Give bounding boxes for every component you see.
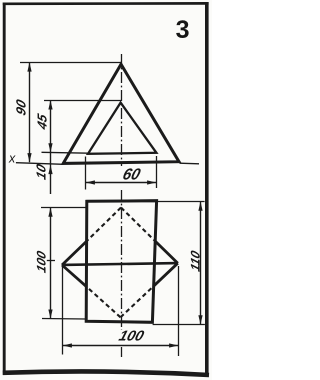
- horizontal solid edge through diamond corners: [62, 263, 178, 265]
- diamond edge top-left dashed part: [87, 208, 121, 242]
- arrow right 60: [147, 180, 156, 184]
- border frame top: [3, 2, 209, 5]
- svg-text:45: 45: [35, 112, 50, 133]
- border frame left: [3, 3, 6, 376]
- dimension line 60: [86, 182, 157, 184]
- dimension line 90: [29, 63, 31, 163]
- inner triangle (front view of inner pyramid): [88, 103, 156, 154]
- diamond edge bottom-right dashed part: [121, 286, 154, 317]
- svg-text:100: 100: [34, 249, 49, 274]
- svg-text:10: 10: [34, 162, 49, 182]
- top view rectangle (prism): [86, 201, 156, 323]
- vertical centerline (axis of symmetry, both views): [121, 54, 123, 166]
- diamond edge top-right solid part: [155, 241, 178, 263]
- extension line 110 top: [157, 201, 205, 203]
- arrow up 100-left top: [48, 208, 52, 217]
- outer triangle (front view of pyramid): [63, 64, 179, 163]
- svg-text:x: x: [8, 152, 16, 166]
- svg-text:3: 3: [176, 16, 190, 44]
- diamond edge top-right dashed part: [121, 208, 155, 241]
- vertical centerline tail below bottom dimension: [121, 347, 123, 357]
- extension line 100-left top: [41, 207, 87, 209]
- arrow down 90 bottom: [27, 153, 31, 162]
- arrow up 10 (below base): [48, 165, 52, 174]
- arrow left 100-bottom: [63, 343, 72, 347]
- extension line 100-bottom left: [62, 267, 64, 355]
- extension line from outer apex (90 dim): [20, 62, 121, 64]
- arrow down 110 bottom: [198, 315, 202, 324]
- extension line 110 bottom: [153, 324, 205, 326]
- horizontal centerline of top view: [47, 260, 55, 262]
- diamond edge bottom-left dashed part: [86, 287, 120, 318]
- extension line 100-bottom right: [178, 266, 180, 356]
- diamond edge bottom-right solid part: [153, 263, 177, 286]
- extension line from inner apex (45 dim): [44, 100, 121, 102]
- svg-text:100: 100: [117, 329, 147, 345]
- arrow right 100-bottom: [169, 343, 178, 347]
- extension line 100-left bottom: [42, 318, 86, 321]
- dimension line 45 / 10: [50, 100, 52, 194]
- dimension line 100 left: [50, 208, 52, 319]
- extension tick at inner base level (45 dim lower ref): [42, 151, 90, 154]
- arrow up 90 top: [27, 62, 31, 71]
- axis x line left segment: [16, 163, 64, 165]
- arrow up 45 top: [48, 100, 52, 109]
- vertical centerline, top view: [121, 190, 123, 330]
- arrow left 60: [86, 180, 95, 184]
- diamond edge bottom-left solid part: [62, 265, 86, 287]
- extension line 60 right: [156, 156, 158, 188]
- dimension line 100 bottom: [63, 345, 179, 347]
- diamond edge top-left solid part: [62, 241, 87, 265]
- border frame right: [205, 2, 209, 377]
- arrow up 110 top: [198, 202, 202, 211]
- axis x line right segment: [180, 162, 200, 165]
- svg-text:90: 90: [14, 97, 29, 117]
- arrow down 100-left bottom: [48, 310, 52, 319]
- border frame bottom: [3, 371, 209, 375]
- extension line 60 left: [85, 157, 87, 190]
- arrow down 45 bottom: [48, 143, 52, 152]
- svg-text:60: 60: [121, 166, 143, 183]
- dimension line 110: [200, 202, 202, 325]
